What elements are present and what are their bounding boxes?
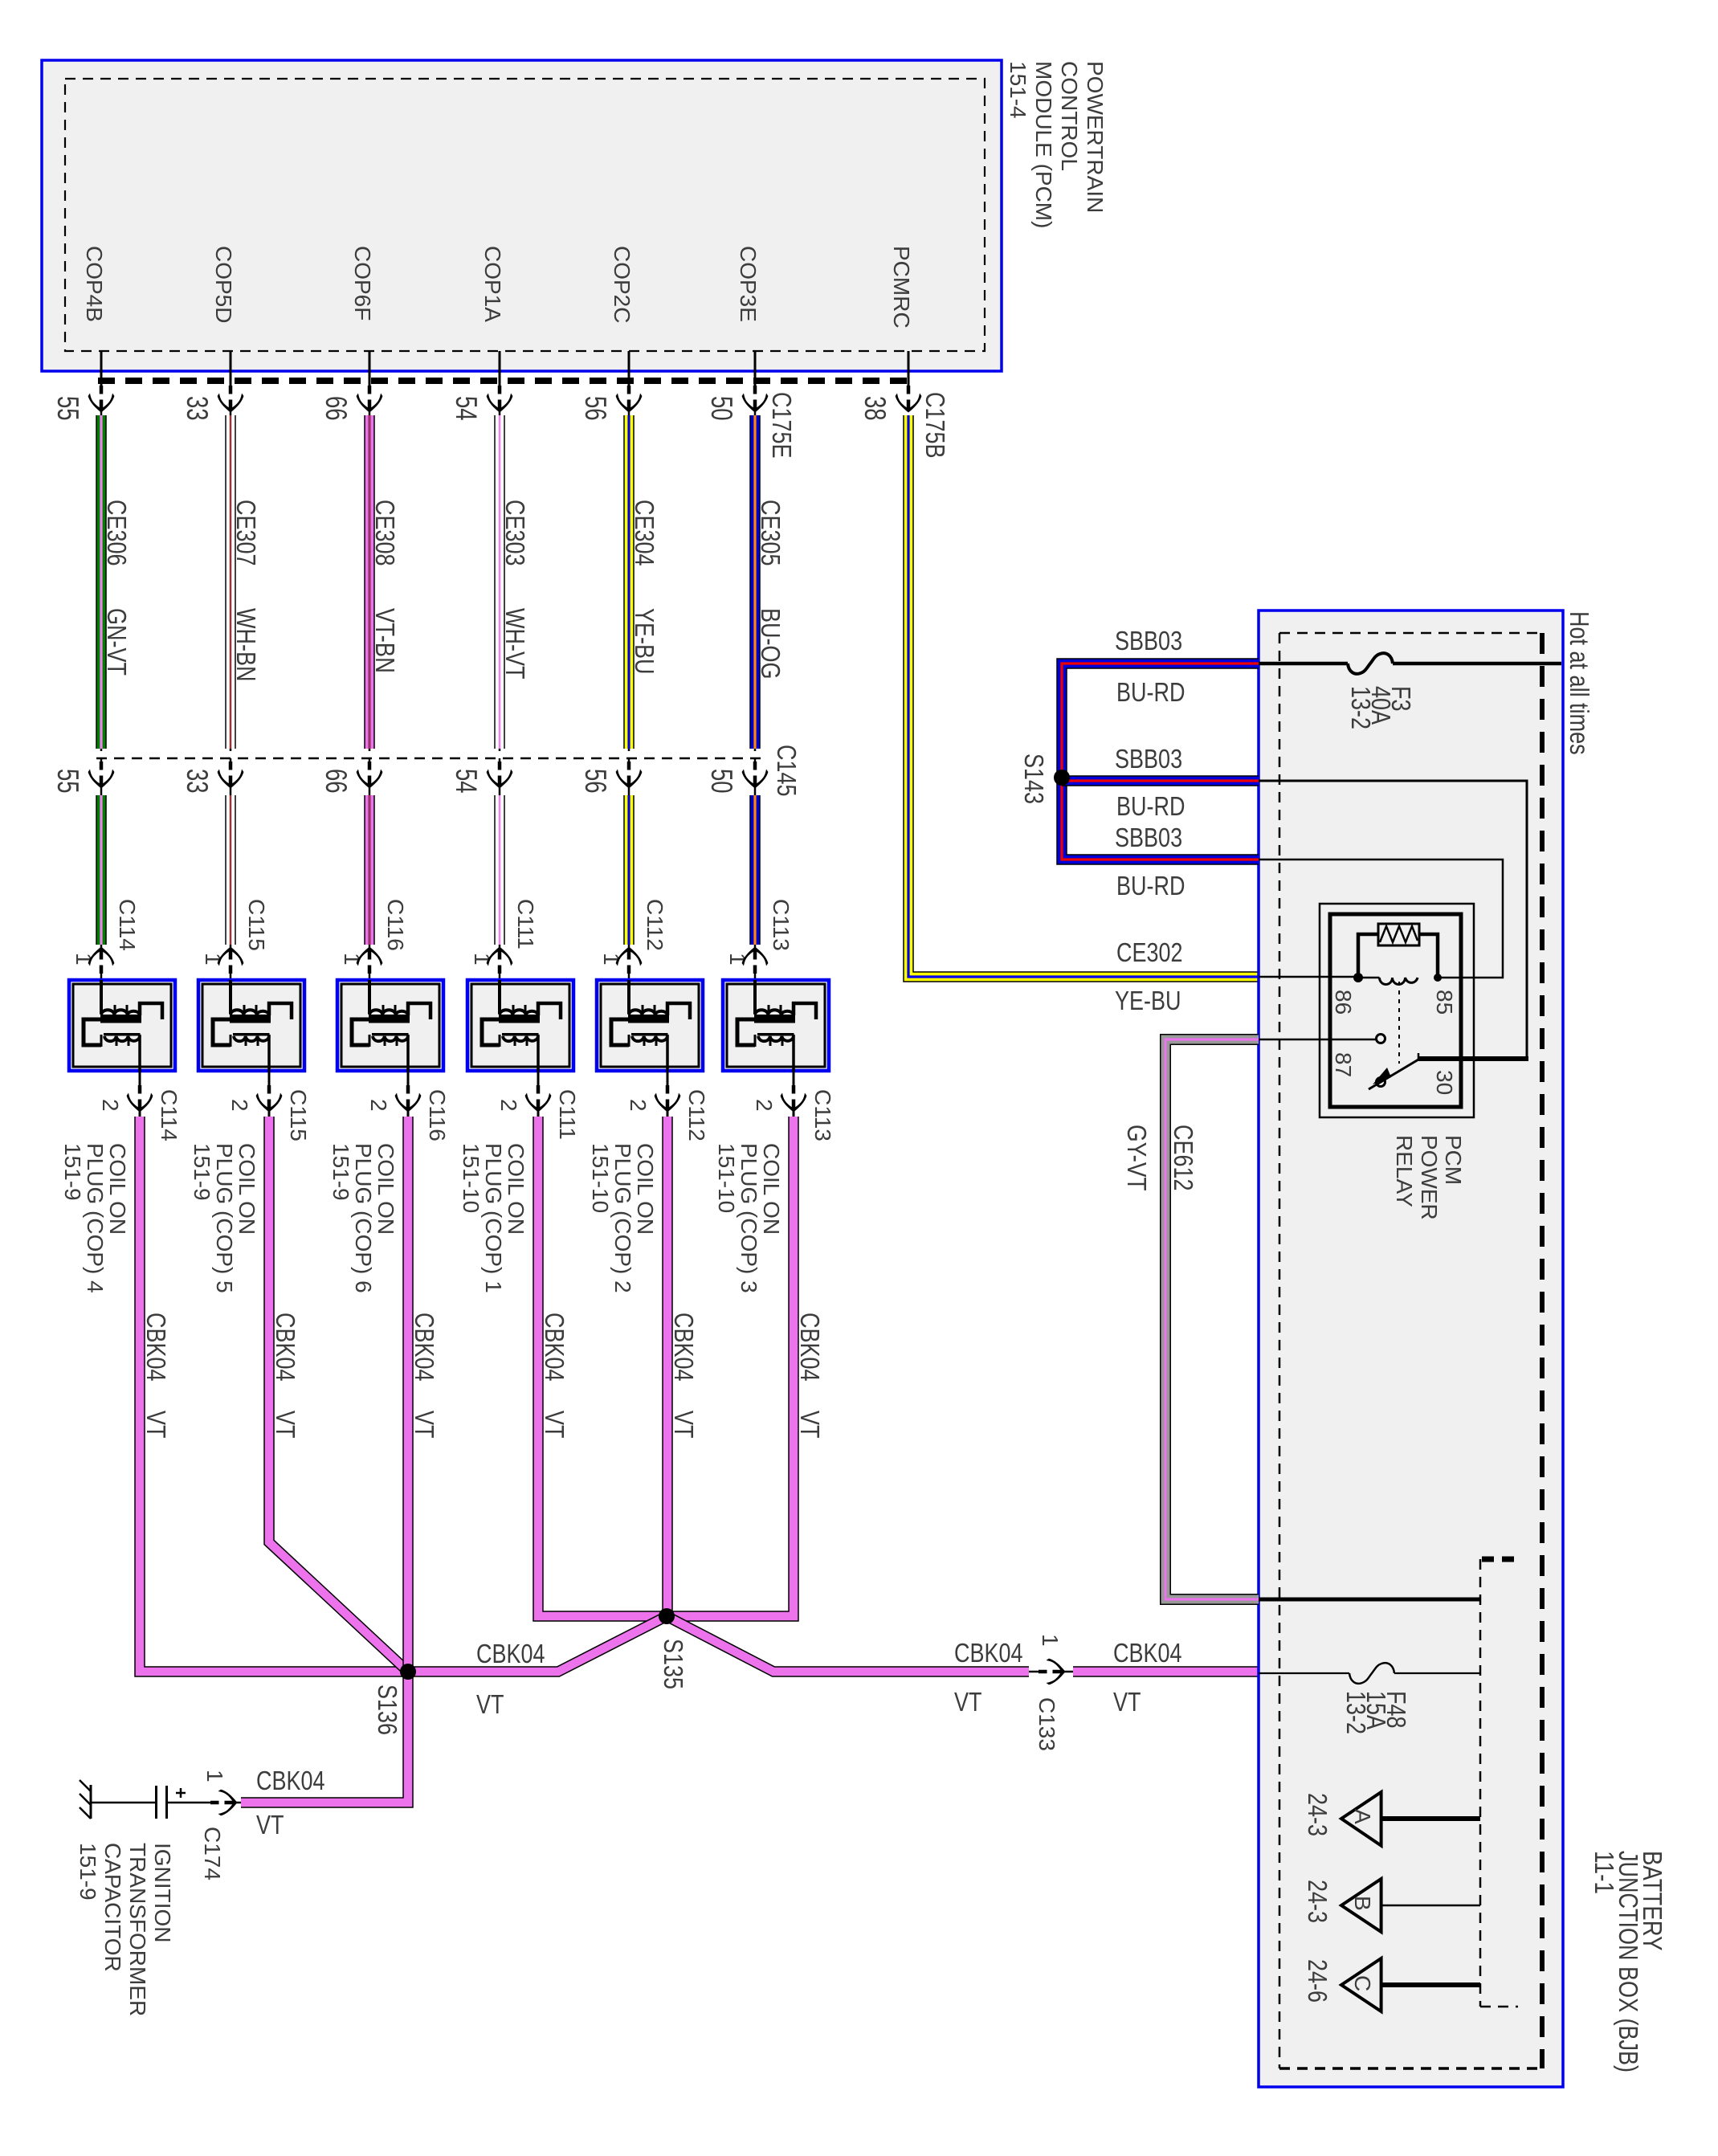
svg-text:C133: C133 — [1034, 1697, 1059, 1751]
component label COIL ON PLUG (COP) 6 — [329, 1143, 398, 1293]
svg-text:A: A — [1350, 1809, 1375, 1824]
svg-text:151-9: 151-9 — [329, 1143, 353, 1201]
connector C174 arrow pin 1 — [168, 1802, 241, 1804]
svg-text:PLUG (COP) 2: PLUG (COP) 2 — [610, 1143, 635, 1293]
PCM pin 56 stub wire and connector arrow — [628, 351, 630, 387]
svg-text:85: 85 — [1432, 990, 1457, 1015]
svg-text:CBK04: CBK04 — [540, 1313, 569, 1382]
svg-text:SBB03: SBB03 — [1115, 626, 1182, 655]
svg-text:C116: C116 — [383, 899, 408, 951]
svg-text:C111: C111 — [555, 1089, 580, 1140]
wire CBK04 VT coil 2 to splice S135 — [662, 1117, 673, 1616]
svg-text:2: 2 — [626, 1099, 651, 1112]
svg-text:C175E: C175E — [767, 392, 797, 459]
fuse F3 symbol — [1348, 653, 1393, 674]
wire CE305 BU-OG segment to coil — [754, 782, 757, 799]
PCM pin 55 stub wire and connector arrow — [100, 351, 103, 387]
svg-text:CBK04: CBK04 — [1113, 1638, 1182, 1668]
connector arrow pin 66 below dashed line — [369, 758, 371, 783]
ignition coil COP3 box — [723, 980, 829, 1071]
svg-text:CE307: CE307 — [231, 500, 261, 566]
coil transformer symbol COP6 — [368, 980, 371, 1014]
ignition coil COP2 box — [597, 980, 703, 1071]
svg-text:COP5D: COP5D — [211, 246, 236, 323]
svg-text:Hot at all times: Hot at all times — [1565, 611, 1594, 755]
svg-text:151-10: 151-10 — [588, 1143, 613, 1213]
svg-text:1: 1 — [1038, 1634, 1063, 1647]
ignition coil COP1 box — [467, 980, 573, 1071]
svg-text:151-9: 151-9 — [60, 1143, 85, 1201]
coil COP5 pin 2 arrow and connector C115 — [268, 1071, 271, 1118]
svg-text:PCMRC: PCMRC — [889, 246, 914, 329]
svg-text:151-9: 151-9 — [190, 1143, 214, 1201]
wire CE308 VT-BN segment from PCM — [369, 406, 371, 751]
svg-text:COIL ON: COIL ON — [504, 1143, 528, 1235]
fuse F48 symbol — [1349, 1663, 1394, 1684]
component label COIL ON PLUG (COP) 1 — [459, 1143, 528, 1293]
svg-text:C174: C174 — [200, 1827, 225, 1880]
fuse label F3 40A 13-2 — [1346, 686, 1416, 729]
svg-text:54: 54 — [450, 769, 483, 794]
svg-text:CBK04: CBK04 — [669, 1313, 699, 1382]
svg-text:VT: VT — [669, 1411, 699, 1439]
svg-text:54: 54 — [450, 396, 483, 421]
svg-text:C116: C116 — [425, 1089, 450, 1141]
output terminal triangle B to 24-3 — [1341, 1879, 1381, 1932]
svg-text:B: B — [1350, 1896, 1375, 1911]
wire CE305 BU-OG segment from PCM — [754, 406, 757, 751]
coil transformer symbol COP4 — [100, 980, 103, 1014]
svg-text:C113: C113 — [769, 899, 794, 951]
connector arrow C113 at coil — [754, 945, 757, 980]
inline connector dashed line C114..C145 — [96, 757, 761, 760]
coil COP6 pin 2 arrow and connector C116 — [407, 1071, 410, 1118]
svg-text:55: 55 — [51, 396, 84, 421]
connector arrow pin 50 below dashed line — [754, 758, 757, 783]
wire CBK04 VT coil 4 vertical + horizontal to splice S136 — [140, 1117, 408, 1672]
svg-text:56: 56 — [579, 396, 612, 421]
svg-text:PLUG (COP) 1: PLUG (COP) 1 — [481, 1143, 506, 1293]
svg-text:VT: VT — [540, 1411, 569, 1439]
svg-text:S143: S143 — [1019, 753, 1049, 804]
svg-text:C115: C115 — [286, 1089, 311, 1141]
svg-text:C111: C111 — [513, 899, 538, 949]
coil COP4 pin 2 arrow and connector C114 — [139, 1071, 141, 1118]
svg-text:BU-RD: BU-RD — [1116, 791, 1185, 821]
svg-text:CAPACITOR: CAPACITOR — [100, 1843, 125, 1972]
ignition coil COP4 box — [69, 980, 175, 1071]
svg-text:50: 50 — [705, 396, 738, 421]
svg-text:VT: VT — [795, 1411, 825, 1439]
relay label PCM POWER RELAY — [1392, 1135, 1466, 1220]
svg-text:CBK04: CBK04 — [476, 1639, 545, 1668]
PCM pin 38 (PCMRC) stub and arrow — [908, 351, 910, 387]
wire CE307 WH-BN segment from PCM — [230, 406, 232, 751]
svg-text:VT: VT — [410, 1411, 439, 1439]
fuse F48 15A line — [1259, 1672, 1349, 1674]
svg-text:55: 55 — [51, 769, 84, 794]
wire CE612 GY-VT from relay pin 87 — [1259, 1039, 1376, 1041]
connector arrow pin 54 below dashed line — [499, 758, 501, 783]
svg-text:86: 86 — [1331, 990, 1356, 1015]
svg-text:1: 1 — [201, 953, 226, 966]
svg-text:POWERTRAIN: POWERTRAIN — [1083, 61, 1108, 213]
svg-text:C: C — [1350, 1975, 1375, 1991]
coil COP2 pin 2 arrow and connector C112 — [667, 1071, 669, 1118]
connector C175 harness thick dashed line — [98, 378, 912, 384]
PCM pin 33 stub wire and connector arrow — [230, 351, 232, 387]
svg-text:COP3E: COP3E — [736, 246, 761, 322]
relay contact circles pin 87 — [1377, 1035, 1385, 1043]
svg-text:S136: S136 — [373, 1684, 402, 1735]
relay switch arm — [1369, 1060, 1418, 1089]
svg-text:151-10: 151-10 — [459, 1143, 484, 1213]
svg-text:C115: C115 — [244, 899, 269, 951]
wire CE303 WH-VT segment from PCM — [499, 406, 501, 751]
svg-text:2: 2 — [98, 1099, 123, 1112]
wire SBB03 BU-RD fuse F3 to S143 to relay85 feed — [1062, 664, 1259, 860]
svg-text:COIL ON: COIL ON — [633, 1143, 658, 1235]
svg-text:PLUG (COP) 6: PLUG (COP) 6 — [351, 1143, 376, 1293]
svg-text:VT: VT — [954, 1687, 982, 1717]
svg-text:1: 1 — [725, 953, 750, 966]
svg-text:1: 1 — [599, 953, 624, 966]
svg-text:CBK04: CBK04 — [271, 1313, 300, 1382]
svg-text:GY-VT: GY-VT — [1122, 1125, 1152, 1191]
svg-text:CONTROL: CONTROL — [1057, 61, 1082, 171]
relay resistor — [1378, 924, 1419, 945]
connector arrow pin 55 below dashed line — [100, 758, 103, 783]
coil transformer symbol COP3 — [753, 980, 757, 1014]
svg-text:CBK04: CBK04 — [256, 1766, 325, 1795]
svg-text:WH-VT: WH-VT — [500, 608, 530, 680]
svg-text:CE303: CE303 — [500, 500, 530, 566]
svg-text:2: 2 — [496, 1099, 521, 1112]
connector arrow pin 56 below dashed line — [628, 758, 630, 783]
svg-text:SBB03: SBB03 — [1115, 823, 1182, 852]
wire CBK04 VT run S136 to S135 — [408, 1616, 667, 1672]
svg-text:CBK04: CBK04 — [410, 1313, 439, 1382]
svg-text:2: 2 — [752, 1099, 777, 1112]
svg-text:VT: VT — [1113, 1687, 1141, 1717]
svg-text:13-2: 13-2 — [1341, 1691, 1371, 1734]
wire SBB03 BU-RD middle S143 to relay30 feed — [1062, 775, 1259, 786]
coil COP1 pin 2 arrow and connector C111 — [537, 1071, 540, 1118]
PCM power relay box — [1320, 904, 1474, 1117]
svg-text:VT: VT — [141, 1411, 171, 1439]
svg-text:COIL ON: COIL ON — [759, 1143, 784, 1235]
coil transformer symbol COP2 — [627, 980, 630, 1014]
svg-text:24-6: 24-6 — [1303, 1959, 1332, 2003]
wire CBK04 VT coil 3 to splice S135 — [667, 1117, 794, 1616]
svg-text:C114: C114 — [115, 899, 140, 951]
connector arrow C114 at coil — [100, 945, 103, 980]
svg-text:11-1: 11-1 — [1589, 1851, 1619, 1894]
connector arrow C112 at coil — [628, 945, 630, 980]
BJB label BATTERY JUNCTION BOX (BJB) 11-1 — [1589, 1851, 1667, 2072]
PCM pin 50 stub wire and connector arrow — [754, 351, 757, 387]
svg-text:COIL ON: COIL ON — [235, 1143, 259, 1235]
svg-text:VT: VT — [476, 1689, 504, 1719]
svg-text:PCM: PCM — [1441, 1135, 1466, 1185]
capacitor C174 ignition transformer capacitor — [155, 1786, 157, 1819]
svg-text:TRANSFORMER: TRANSFORMER — [125, 1843, 150, 2016]
coil transformer symbol COP5 — [229, 980, 232, 1014]
svg-text:CE308: CE308 — [370, 500, 400, 566]
svg-text:COIL ON: COIL ON — [105, 1143, 130, 1235]
svg-text:S135: S135 — [659, 1639, 688, 1689]
svg-text:33: 33 — [181, 396, 214, 421]
svg-text:CE304: CE304 — [630, 500, 659, 566]
svg-text:CE302: CE302 — [1116, 937, 1183, 967]
svg-text:151-10: 151-10 — [714, 1143, 739, 1213]
svg-text:VT-BN: VT-BN — [370, 608, 400, 673]
svg-text:MODULE (PCM): MODULE (PCM) — [1031, 61, 1056, 228]
svg-text:38: 38 — [859, 396, 892, 421]
svg-text:IGNITION: IGNITION — [150, 1843, 175, 1942]
svg-text:WH-BN: WH-BN — [231, 608, 261, 682]
svg-text:30: 30 — [1432, 1070, 1457, 1095]
wire CBK04 VT run S135 to C133 — [667, 1616, 1029, 1672]
PCM label POWERTRAIN CONTROL MODULE (PCM) 151-4 — [1006, 61, 1108, 228]
BJB sub-module dashed boundary — [1479, 1559, 1482, 2007]
ground symbol at capacitor — [90, 1785, 92, 1819]
fuse label F48 15A 13-2 — [1341, 1691, 1411, 1734]
wire inside BJB from SBB03 middle to relay pin 30 — [1259, 781, 1527, 1059]
svg-text:C113: C113 — [810, 1089, 835, 1141]
svg-text:24-3: 24-3 — [1303, 1793, 1332, 1836]
component label COIL ON PLUG (COP) 3 — [714, 1143, 784, 1293]
PCM pin 66 stub wire and connector arrow — [369, 351, 371, 387]
svg-text:2: 2 — [366, 1099, 391, 1112]
svg-text:PLUG (COP) 5: PLUG (COP) 5 — [212, 1143, 237, 1293]
svg-text:66: 66 — [320, 769, 353, 794]
connector arrow C111 at coil — [499, 945, 501, 980]
connector arrow pin 33 below dashed line — [230, 758, 232, 783]
wire CE307 WH-BN segment to coil — [230, 782, 232, 799]
wire inside BJB from CE612 re-entry — [1259, 1598, 1480, 1602]
svg-text:CE612: CE612 — [1169, 1125, 1198, 1191]
svg-text:BU-OG: BU-OG — [756, 608, 786, 680]
svg-text:1: 1 — [202, 1770, 227, 1782]
coil transformer symbol COP1 — [498, 980, 501, 1014]
PCM module box: POWERTRAIN CONTROL MODULE — [42, 60, 1002, 371]
splice S136 — [400, 1664, 416, 1680]
svg-text:1: 1 — [470, 953, 495, 966]
wire CE306 GN-VT segment from PCM — [100, 406, 103, 751]
svg-text:PLUG (COP) 3: PLUG (COP) 3 — [737, 1143, 761, 1293]
output terminal triangle C to 24-6 — [1341, 1958, 1381, 2011]
connector arrow C116 at coil — [369, 945, 371, 980]
svg-text:66: 66 — [320, 396, 353, 421]
wire CE304 YE-BU segment from PCM — [628, 406, 630, 751]
PCM pin 54 stub wire and connector arrow — [499, 351, 501, 387]
svg-text:CE305: CE305 — [756, 500, 786, 566]
svg-text:33: 33 — [181, 769, 214, 794]
wire inside BJB from CE302 to relay pin 86 — [1259, 976, 1355, 978]
svg-text:BU-RD: BU-RD — [1116, 677, 1185, 707]
ignition coil COP6 box — [337, 980, 443, 1071]
svg-text:BU-RD: BU-RD — [1116, 871, 1185, 900]
component label COIL ON PLUG (COP) 2 — [588, 1143, 658, 1293]
svg-text:C145: C145 — [772, 745, 802, 797]
svg-text:C112: C112 — [684, 1089, 709, 1141]
splice S135 — [659, 1608, 675, 1624]
svg-text:151-9: 151-9 — [75, 1843, 100, 1901]
svg-text:YE-BU: YE-BU — [1115, 986, 1181, 1015]
component label IGNITION TRANSFORMER CAPACITOR 151-9 — [75, 1843, 175, 2016]
component label COIL ON PLUG (COP) 5 — [190, 1143, 259, 1293]
svg-text:CBK04: CBK04 — [954, 1638, 1023, 1668]
splice S143 — [1054, 770, 1070, 786]
wire CBK04 VT coil 1 to splice S135 — [538, 1117, 667, 1616]
svg-text:1: 1 — [340, 953, 365, 966]
fuse F3 40A line — [1259, 662, 1348, 666]
inline connector C133 — [1029, 1671, 1073, 1673]
wire CE306 GN-VT segment to coil — [100, 782, 103, 799]
wire CE302 YE-BU from PCMRC to BJB — [908, 415, 1259, 977]
svg-text:C112: C112 — [643, 899, 667, 951]
svg-text:CBK04: CBK04 — [795, 1313, 825, 1382]
svg-text:YE-BU: YE-BU — [630, 608, 659, 675]
svg-text:RELAY: RELAY — [1392, 1135, 1417, 1207]
svg-text:CE306: CE306 — [102, 500, 132, 566]
svg-text:VT: VT — [256, 1810, 284, 1840]
svg-text:COP4B: COP4B — [82, 246, 107, 322]
wire CE303 WH-VT segment to coil — [499, 782, 501, 799]
wire CBK04 VT coil 5 with diagonal to splice S136 — [269, 1117, 408, 1672]
svg-text:C114: C114 — [157, 1089, 182, 1141]
svg-text:50: 50 — [705, 769, 738, 794]
svg-text:13-2: 13-2 — [1346, 686, 1376, 729]
wire CBK04 VT from C133 to BJB — [1073, 1666, 1259, 1677]
svg-text:COP6F: COP6F — [350, 246, 375, 321]
svg-text:24-3: 24-3 — [1303, 1880, 1332, 1923]
svg-text:VT: VT — [271, 1411, 300, 1439]
svg-text:151-4: 151-4 — [1006, 61, 1030, 119]
svg-text:SBB03: SBB03 — [1115, 744, 1182, 774]
svg-text:CBK04: CBK04 — [141, 1313, 171, 1382]
relay actuator dashed link — [1398, 982, 1400, 1064]
svg-text:C175B: C175B — [920, 392, 950, 459]
coil COP3 pin 2 arrow and connector C113 — [793, 1071, 795, 1118]
svg-text:COP1A: COP1A — [480, 246, 505, 322]
svg-text:GN-VT: GN-VT — [102, 608, 132, 676]
svg-text:2: 2 — [227, 1099, 252, 1112]
Battery Junction Box (BJB) — [1259, 610, 1563, 2087]
svg-text:POWER: POWER — [1417, 1135, 1442, 1220]
svg-text:COIL ON: COIL ON — [373, 1143, 398, 1235]
svg-text:COP2C: COP2C — [610, 246, 635, 323]
wire CE304 YE-BU segment to coil — [628, 782, 630, 799]
wire CBK04 VT coil 6 down through splice S136 to capacitor — [241, 1117, 408, 1803]
output terminal triangle A to 24-3 — [1341, 1792, 1381, 1846]
svg-text:87: 87 — [1331, 1052, 1356, 1077]
ignition coil COP5 box — [198, 980, 304, 1071]
svg-text:PLUG (COP) 4: PLUG (COP) 4 — [83, 1143, 108, 1293]
relay coil winding — [1380, 978, 1418, 985]
wire inside BJB from SBB03 bottom to relay pin 85 — [1259, 860, 1503, 978]
component label COIL ON PLUG (COP) 4 — [60, 1143, 130, 1293]
wire CE308 VT-BN segment to coil — [369, 782, 371, 799]
svg-text:56: 56 — [579, 769, 612, 794]
svg-text:1: 1 — [71, 953, 96, 966]
connector arrow C115 at coil — [230, 945, 232, 980]
